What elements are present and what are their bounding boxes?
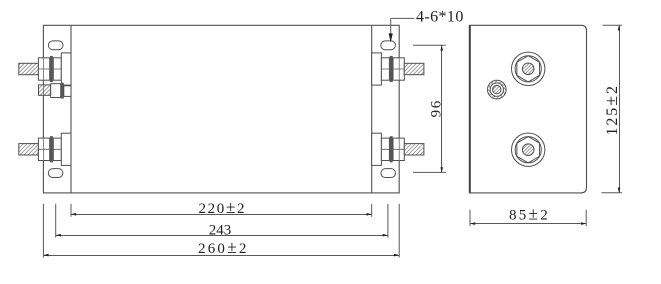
svg-text:260±2: 260±2	[198, 237, 249, 257]
svg-text:125±2: 125±2	[601, 84, 621, 135]
svg-text:4-6*10: 4-6*10	[416, 9, 464, 26]
svg-text:85±2: 85±2	[509, 203, 550, 223]
svg-text:96: 96	[428, 99, 444, 117]
svg-text:220±2: 220±2	[199, 197, 247, 217]
